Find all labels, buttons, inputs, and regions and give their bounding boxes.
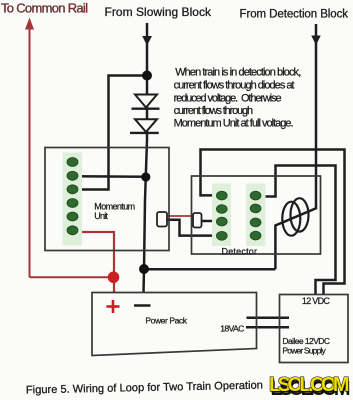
svg-text:current flows through diodes a: current flows through diodes at — [174, 80, 295, 92]
svg-text:From Slowing Block: From Slowing Block — [105, 5, 213, 19]
svg-text:reduced voltage. Otherwise: reduced voltage. Otherwise — [174, 93, 282, 105]
svg-text:Unit: Unit — [94, 211, 108, 221]
svg-text:To Common Rail: To Common Rail — [1, 1, 88, 16]
svg-text:18VAC: 18VAC — [220, 323, 244, 333]
svg-text:From Detection Block: From Detection Block — [240, 9, 349, 21]
svg-text:Detector: Detector — [222, 247, 258, 257]
svg-text:Power Pack: Power Pack — [145, 316, 187, 326]
svg-text:Momentum Unit at full voltage.: Momentum Unit at full voltage. — [174, 117, 294, 129]
svg-text:When train is in detection blo: When train is in detection block, — [175, 67, 301, 79]
svg-text:LSOL.COM: LSOL.COM — [269, 374, 350, 396]
svg-text:Power Supply: Power Supply — [282, 346, 326, 356]
svg-text:Momentum: Momentum — [94, 202, 135, 212]
svg-text:Dailee 12VDC: Dailee 12VDC — [282, 336, 330, 346]
svg-text:12 VDC: 12 VDC — [302, 296, 331, 306]
svg-text:current flows through: current flows through — [174, 105, 254, 117]
